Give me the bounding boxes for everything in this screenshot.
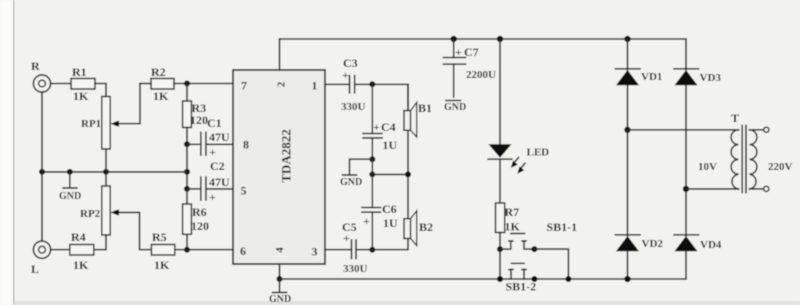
wire pin1 to C3 bbox=[325, 83, 350, 85]
node speaker mid junction right bbox=[405, 171, 411, 177]
svg-text:SB1-1: SB1-1 bbox=[547, 220, 578, 234]
capacitor C1 bbox=[187, 116, 233, 159]
left scan edge line bbox=[13, 0, 14, 305]
node speaker mid junction left bbox=[369, 171, 375, 177]
wire mid node to VD2 bbox=[627, 130, 629, 236]
resistor R2 bbox=[140, 65, 174, 103]
svg-text:330U: 330U bbox=[343, 263, 368, 275]
op-amp U1 TDA2822 bbox=[233, 70, 325, 264]
wire VD1 to mid node bbox=[627, 85, 629, 130]
capacitor C6 bbox=[362, 202, 398, 250]
wire top rail corner to VD3 bbox=[685, 39, 687, 70]
wire jack L to R4 bbox=[51, 249, 70, 251]
capacitor C2 bbox=[187, 159, 233, 204]
node C1 junction bbox=[184, 141, 190, 147]
svg-text:10V: 10V bbox=[698, 161, 717, 173]
node VD2 on ground rail bbox=[624, 276, 630, 282]
node bus junction on R3/R6 line bbox=[184, 169, 190, 175]
svg-text:RP1: RP1 bbox=[81, 118, 101, 130]
wire bridge mid to transformer top bbox=[628, 129, 739, 131]
wire R3 to C1 node bbox=[186, 128, 188, 145]
ground GND left bbox=[59, 172, 81, 202]
svg-text:1: 1 bbox=[312, 79, 318, 93]
node SB1-2 right on rail bbox=[531, 276, 537, 282]
node bus-gnd bbox=[67, 169, 73, 175]
node LED line on top rail bbox=[497, 36, 503, 42]
capacitor C3 bbox=[341, 56, 366, 113]
svg-text:47U: 47U bbox=[209, 175, 230, 189]
node C3/C4 junction bbox=[369, 81, 375, 87]
potentiometer RP2 bbox=[80, 186, 110, 235]
svg-text:VD1: VD1 bbox=[641, 71, 662, 83]
svg-text:GND: GND bbox=[340, 177, 362, 188]
svg-text:1K: 1K bbox=[154, 258, 170, 272]
svg-text:C3: C3 bbox=[343, 56, 358, 70]
wire R5 to pin6 node bbox=[175, 249, 187, 251]
wire mid node to speaker line bbox=[372, 173, 408, 175]
jack R to jack L vertical wire bbox=[41, 92, 43, 241]
node bus-jackline bbox=[39, 169, 45, 175]
svg-text:+: + bbox=[343, 231, 350, 245]
wire R4 to RP2 bottom bbox=[94, 235, 106, 250]
svg-text:RP2: RP2 bbox=[80, 208, 101, 220]
svg-text:2200U: 2200U bbox=[466, 69, 496, 81]
svg-text:C7: C7 bbox=[464, 45, 479, 59]
svg-text:R6: R6 bbox=[192, 205, 207, 219]
diode VD3 bbox=[674, 69, 721, 86]
wire pin2 riser to top rail bbox=[279, 39, 281, 70]
wire VD2 to ground rail bbox=[627, 251, 629, 279]
node transformer primary bottom bbox=[683, 186, 689, 192]
diode VD1 bbox=[616, 39, 663, 85]
node VD1 on top rail bbox=[624, 36, 630, 42]
svg-text:R5: R5 bbox=[152, 230, 167, 244]
svg-text:+: + bbox=[373, 120, 380, 134]
svg-text:+: + bbox=[363, 214, 370, 228]
wire R7 to rail bbox=[499, 233, 501, 280]
svg-text:1K: 1K bbox=[505, 220, 521, 234]
RP1 wiper arrow and wire to R2 bbox=[111, 84, 141, 128]
svg-text:VD3: VD3 bbox=[700, 72, 722, 84]
svg-text:220V: 220V bbox=[768, 161, 793, 173]
wire SB1-1 to ground rail bbox=[534, 249, 568, 279]
resistor R4 bbox=[70, 230, 94, 272]
LED diode bbox=[488, 144, 549, 173]
wire RP1 bottom to RP2 top bbox=[105, 149, 107, 186]
svg-text:C6: C6 bbox=[382, 202, 397, 216]
svg-text:330U: 330U bbox=[341, 101, 366, 113]
top supply rail bbox=[280, 38, 687, 40]
input jack R bbox=[31, 59, 51, 92]
svg-text:7: 7 bbox=[241, 79, 247, 93]
wire C4 node down to C6 bbox=[371, 159, 373, 207]
ground GND C4 bbox=[340, 159, 372, 188]
diode VD4 bbox=[674, 235, 722, 252]
node C2 junction bbox=[184, 186, 190, 192]
node SB1-1 tap bbox=[497, 246, 503, 252]
node bus-RP bbox=[103, 169, 109, 175]
node R2/R3 junction bbox=[184, 81, 190, 87]
svg-text:GND: GND bbox=[444, 102, 466, 113]
svg-text:C2: C2 bbox=[210, 159, 225, 173]
svg-text:3: 3 bbox=[312, 245, 318, 259]
svg-text:B1: B1 bbox=[418, 101, 432, 115]
svg-text:+: + bbox=[209, 145, 216, 159]
wire pin6 bbox=[187, 249, 233, 251]
wire C1 node to C2 node bbox=[186, 144, 188, 189]
wire C3 to speaker B1 bbox=[355, 84, 408, 110]
svg-text:8: 8 bbox=[243, 138, 249, 152]
svg-text:B2: B2 bbox=[419, 220, 433, 234]
speaker B2 bbox=[404, 211, 433, 246]
node SB1-1 right bbox=[531, 246, 537, 252]
svg-text:1U: 1U bbox=[383, 216, 398, 230]
svg-text:6: 6 bbox=[240, 244, 246, 258]
wire B1 to B2 bbox=[407, 130, 409, 218]
resistor R3 bbox=[183, 84, 208, 128]
svg-text:R7: R7 bbox=[505, 205, 520, 219]
wire jack R to R1 bbox=[51, 83, 71, 85]
resistor R5 bbox=[151, 230, 174, 272]
potentiometer RP1 bbox=[81, 97, 110, 150]
svg-text:GND: GND bbox=[59, 191, 81, 202]
svg-text:L: L bbox=[31, 262, 39, 276]
wire R2 to pin 7 bbox=[174, 83, 233, 85]
transformer T bbox=[698, 111, 793, 193]
ground GND pin4 bbox=[269, 279, 291, 305]
svg-text:1K: 1K bbox=[73, 89, 89, 103]
wire pin3 to C5 bbox=[325, 249, 352, 251]
svg-text:47U: 47U bbox=[209, 130, 230, 144]
wire pin4 drop bbox=[279, 264, 281, 279]
node C5/C6 junction bbox=[369, 247, 375, 253]
bottom ground rail bbox=[280, 278, 687, 280]
svg-text:R2: R2 bbox=[151, 65, 166, 79]
svg-text:VD2: VD2 bbox=[642, 238, 664, 250]
RP2 wiper arrow wire to R5 bbox=[111, 209, 152, 250]
svg-text:+: + bbox=[209, 190, 216, 204]
svg-text:TDA2822: TDA2822 bbox=[279, 129, 294, 182]
svg-text:4: 4 bbox=[274, 247, 286, 253]
wire bridge mid to transformer bottom bbox=[686, 188, 739, 190]
node SB1-2 left on rail bbox=[497, 276, 503, 282]
resistor R7 bbox=[496, 203, 521, 234]
svg-text:1U: 1U bbox=[383, 138, 398, 152]
capacitor C7 bbox=[444, 39, 497, 97]
wire rail to LED bbox=[499, 39, 501, 144]
speaker B1 bbox=[404, 84, 432, 137]
wire VD3 to VD4 bbox=[685, 85, 687, 236]
wire R6 to pin6 node bbox=[186, 234, 188, 249]
wire LED to R7 bbox=[499, 159, 501, 203]
svg-text:SB1-2: SB1-2 bbox=[506, 280, 537, 294]
capacitor C4 bbox=[363, 84, 398, 159]
svg-text:5: 5 bbox=[241, 184, 247, 198]
bottom scan band bbox=[14, 301, 800, 305]
svg-text:1K: 1K bbox=[73, 258, 89, 272]
svg-text:+: + bbox=[342, 68, 349, 82]
ground bus wire bbox=[42, 171, 187, 173]
node SB1-1 return on rail bbox=[565, 276, 571, 282]
node C4 bottom junction bbox=[369, 156, 375, 162]
svg-text:2: 2 bbox=[276, 81, 288, 87]
node pin4-ground rail bbox=[277, 276, 283, 282]
ground GND C7 bbox=[444, 101, 466, 114]
input jack L bbox=[31, 241, 51, 276]
wire C5 node to speaker B2 bbox=[372, 239, 408, 250]
svg-text:C1: C1 bbox=[207, 116, 222, 130]
svg-text:120: 120 bbox=[190, 113, 208, 127]
resistor R6 bbox=[183, 189, 209, 234]
svg-text:1K: 1K bbox=[153, 89, 169, 103]
svg-text:VD4: VD4 bbox=[700, 239, 722, 251]
svg-text:R4: R4 bbox=[71, 230, 86, 244]
node R7 line to ground rail bbox=[497, 276, 503, 282]
svg-text:C4: C4 bbox=[381, 120, 396, 134]
resistor R1 bbox=[71, 65, 95, 103]
svg-text:LED: LED bbox=[527, 147, 550, 159]
white left margin strip bbox=[0, 0, 13, 305]
svg-text:GND: GND bbox=[269, 294, 291, 305]
svg-text:+: + bbox=[455, 45, 462, 59]
svg-text:120: 120 bbox=[191, 219, 209, 233]
wire VD4 to ground rail corner bbox=[685, 251, 687, 279]
svg-text:R: R bbox=[31, 59, 40, 73]
capacitor C5 bbox=[342, 220, 372, 275]
svg-text:T: T bbox=[731, 111, 739, 125]
wire R1 to RP1 top bbox=[95, 84, 106, 97]
node C7 on top rail bbox=[451, 36, 457, 42]
node transformer primary top bbox=[624, 127, 630, 133]
switch SB1-2 bbox=[506, 263, 537, 293]
diode VD2 bbox=[616, 235, 664, 252]
svg-text:R1: R1 bbox=[72, 65, 87, 79]
node pin6 junction bbox=[184, 247, 190, 253]
switch SB1-1 bbox=[500, 220, 577, 249]
